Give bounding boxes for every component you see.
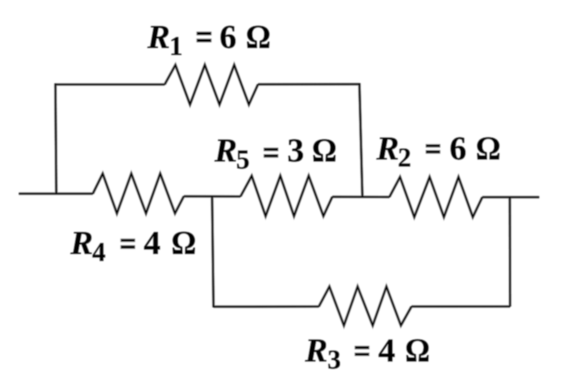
wire: left vertical of bottom loop (from node A) [212, 197, 213, 308]
value label R3 = 4 ohm [304, 333, 430, 375]
value label R2 = 6 ohm [375, 131, 500, 173]
wire: top-left horizontal (top loop) [55, 83, 164, 85]
resistor R2 (zigzag, middle rail right) [389, 177, 482, 217]
value label R4 = 4 ohm [69, 225, 196, 267]
wire: right vertical of bottom loop [509, 197, 511, 306]
wire: left vertical (top loop down to middle rail) [54, 83, 57, 193]
resistor R4 (zigzag, middle rail left) [93, 174, 184, 214]
wire: right vertical of top loop (node B junction) [359, 83, 362, 197]
wire: bottom-left horizontal (bottom loop) [214, 306, 319, 308]
wire halo (soft edge underlay) [19, 65, 539, 325]
wire: middle rail R2 to right terminal [482, 196, 539, 198]
wire: top-right horizontal (top loop) [258, 83, 359, 85]
resistor R5 (zigzag, middle rail center) [241, 176, 333, 216]
resistor R3 (zigzag, bottom branch) [319, 287, 412, 326]
resistor R1 (zigzag, top branch) [165, 65, 258, 105]
wire: bottom-right horizontal (bottom loop) [412, 305, 511, 307]
wire: middle rail R5 to R2 [332, 196, 389, 198]
wire: middle rail R4 to R5 (node A junction) [184, 195, 241, 197]
wire: left terminal lead (middle rail) [19, 193, 93, 195]
value label R5 = 3 ohm [214, 132, 337, 174]
svg-text:R53Ω: R53Ω [214, 132, 337, 174]
value label R1 = 6 ohm [146, 19, 270, 61]
